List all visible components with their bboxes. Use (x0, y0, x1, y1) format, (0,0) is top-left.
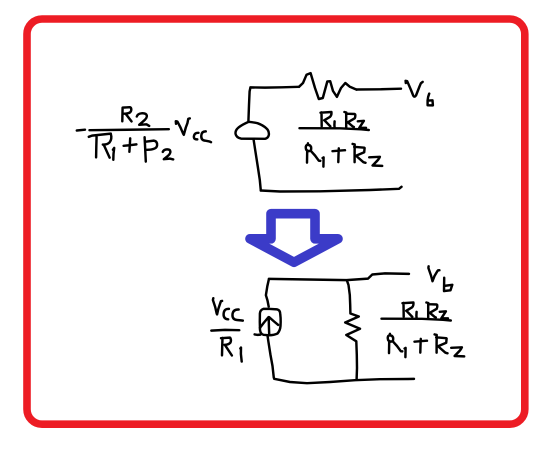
current source Vcc/R1 (circle with up arrow) (255, 309, 281, 335)
resistor (vertical zigzag, bottom circuit) (345, 280, 360, 379)
equivalence arrow (blue) (250, 214, 338, 263)
wire: bottom rail of bottom circuit (274, 379, 414, 383)
value label R1R2/(R1+R2) (bottom circuit) (382, 303, 465, 358)
wire: bottom of top circuit (261, 187, 402, 192)
wire: below voltage source (254, 139, 261, 191)
node Vb (bottom) label (428, 266, 452, 291)
wire: top circuit, top-left corner lead (248, 87, 299, 122)
value label Vcc/R1 (current source value) (211, 298, 243, 361)
node Vb (top) label (406, 81, 433, 106)
wire: top rail to current source (266, 279, 269, 307)
wire: resistor to node Vb (357, 87, 402, 90)
resistor (zigzag, top circuit) (299, 73, 357, 99)
wire: bottom circuit, top rail (269, 273, 409, 280)
value label R2/(R1+R2) Vcc (left fraction) (77, 107, 211, 161)
value label R1R2/(R1+R2) (top circuit) (300, 112, 383, 167)
voltage source Vcc (dome symbol) (236, 122, 269, 139)
wire: below current source (268, 335, 274, 377)
